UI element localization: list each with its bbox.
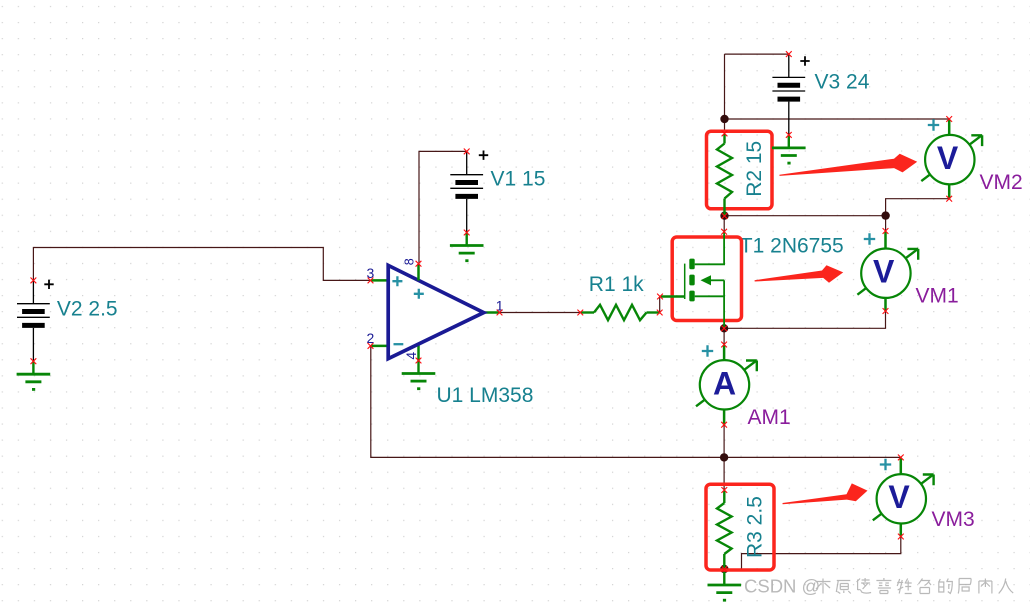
svg-text:8: 8 <box>403 258 417 265</box>
svg-text:CSDN @: CSDN @ <box>744 576 820 597</box>
svg-text:T1 2N6755: T1 2N6755 <box>740 234 844 257</box>
svg-text:U1 LM358: U1 LM358 <box>437 384 534 407</box>
svg-text:V3 24: V3 24 <box>815 71 870 94</box>
svg-text:VM1: VM1 <box>916 285 959 308</box>
svg-text:3: 3 <box>367 265 375 281</box>
svg-text:R3 2.5: R3 2.5 <box>744 496 767 558</box>
svg-text:R1 1k: R1 1k <box>589 273 644 296</box>
svg-text:V1 15: V1 15 <box>491 168 546 191</box>
svg-text:R2 15: R2 15 <box>743 141 766 197</box>
svg-text:V2 2.5: V2 2.5 <box>57 297 118 320</box>
svg-text:VM3: VM3 <box>932 508 975 531</box>
svg-text:AM1: AM1 <box>748 406 791 429</box>
svg-text:V: V <box>873 253 895 289</box>
svg-text:1: 1 <box>496 297 504 313</box>
svg-text:VM2: VM2 <box>980 171 1023 194</box>
svg-text:V: V <box>888 479 910 515</box>
svg-text:V: V <box>937 140 959 176</box>
svg-text:A: A <box>713 365 736 401</box>
